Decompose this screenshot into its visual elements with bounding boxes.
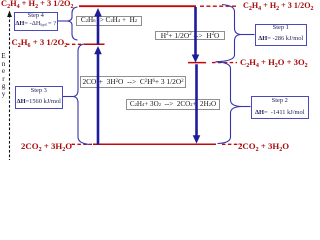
level line A: dashed right part <box>200 5 237 7</box>
step 1 arrow (down, top to C2H4+H2O level) <box>194 7 197 56</box>
reaction box 2: H2 + 1/2O2 to H2O <box>155 31 225 41</box>
brace for step 2 (opens left, cusp right) <box>217 62 243 144</box>
reaction box 4: C2H4 + 3O2 to 2CO2 + 2H2O <box>126 99 220 110</box>
level line D (bottom): dashed left part <box>72 143 93 145</box>
step box 4 <box>14 12 58 31</box>
level line C (C2H6): dashed part <box>66 43 83 45</box>
level line C: solid part <box>84 43 105 45</box>
level line A (top): solid <box>79 5 196 7</box>
connector step3 box to brace <box>63 96 73 98</box>
label: left mid level "C2H6 + 3 1/2O2" <box>12 38 68 47</box>
step box 2 <box>251 96 310 119</box>
axis label: vertical word Energy <box>0 53 7 98</box>
reaction box 3: 2CO2 + 3H2O to C2H6 + 3 1/2O2 <box>80 76 186 88</box>
level line D: solid <box>93 143 216 145</box>
brace for step 4 (opens right, cusp left) <box>67 7 78 40</box>
level line B (C2H4+H2O): solid part <box>188 62 206 64</box>
label: right mid level "C2H4 + H2O + 3O2" <box>240 58 308 67</box>
label: bottom left "2CO2 + 3H2O" <box>21 142 72 151</box>
step 4 arrow (up, C2H6 level to top) <box>97 16 100 45</box>
connector step4 box to brace <box>58 20 67 22</box>
connector step1 box to brace <box>242 34 255 36</box>
level line D: dashed right part <box>222 143 242 145</box>
brace for step 3 (opens right, cusp left) <box>73 44 91 145</box>
step 2 arrow (down, C2H4+H2O level to bottom) <box>195 64 198 136</box>
step 3 arrow (up, bottom to C2H6 level) <box>97 54 100 145</box>
connector step2 box to brace <box>243 106 251 108</box>
brace for step 1 (opens left, cusp right) <box>216 5 242 62</box>
step box 3 <box>15 86 64 109</box>
label: bottom right "2CO2 + 3H2O" <box>238 142 289 151</box>
level line B: dashed right part <box>212 62 237 64</box>
step box 1 <box>255 24 308 46</box>
label: left top level "C2H4 + H2 + 3 1/2O2" <box>1 0 74 8</box>
energy axis arrowhead <box>7 11 12 18</box>
reaction box 1: C2H6 -> C2H4 + H2 <box>76 16 142 27</box>
label: right top level "C2H4 + H2 + 3 1/2O2" <box>243 2 314 10</box>
energy axis: vertical dashed line <box>9 15 11 160</box>
